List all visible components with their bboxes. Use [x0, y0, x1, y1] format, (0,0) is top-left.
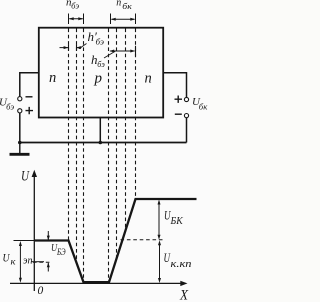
svg-text:бэ: бэ	[96, 36, 105, 46]
svg-text:к.кп: к.кп	[171, 258, 193, 270]
svg-text:БЭ: БЭ	[56, 247, 65, 257]
svg-text:n: n	[49, 70, 56, 86]
svg-text:n: n	[145, 70, 152, 86]
svg-text:бэ: бэ	[6, 102, 14, 112]
svg-text:X: X	[179, 288, 189, 302]
svg-text:U: U	[3, 251, 11, 265]
svg-text:p: p	[94, 71, 103, 87]
svg-text:бэ: бэ	[71, 0, 79, 10]
svg-text:бк: бк	[199, 102, 209, 112]
svg-text:БК: БК	[170, 216, 184, 227]
svg-text:бк: бк	[122, 1, 133, 11]
svg-text:0: 0	[38, 285, 44, 297]
svg-text:п: п	[116, 0, 121, 8]
svg-text:бэ: бэ	[97, 59, 105, 69]
svg-text:эп: эп	[23, 255, 33, 267]
svg-text:к: к	[11, 258, 17, 268]
svg-text:U: U	[21, 168, 30, 184]
